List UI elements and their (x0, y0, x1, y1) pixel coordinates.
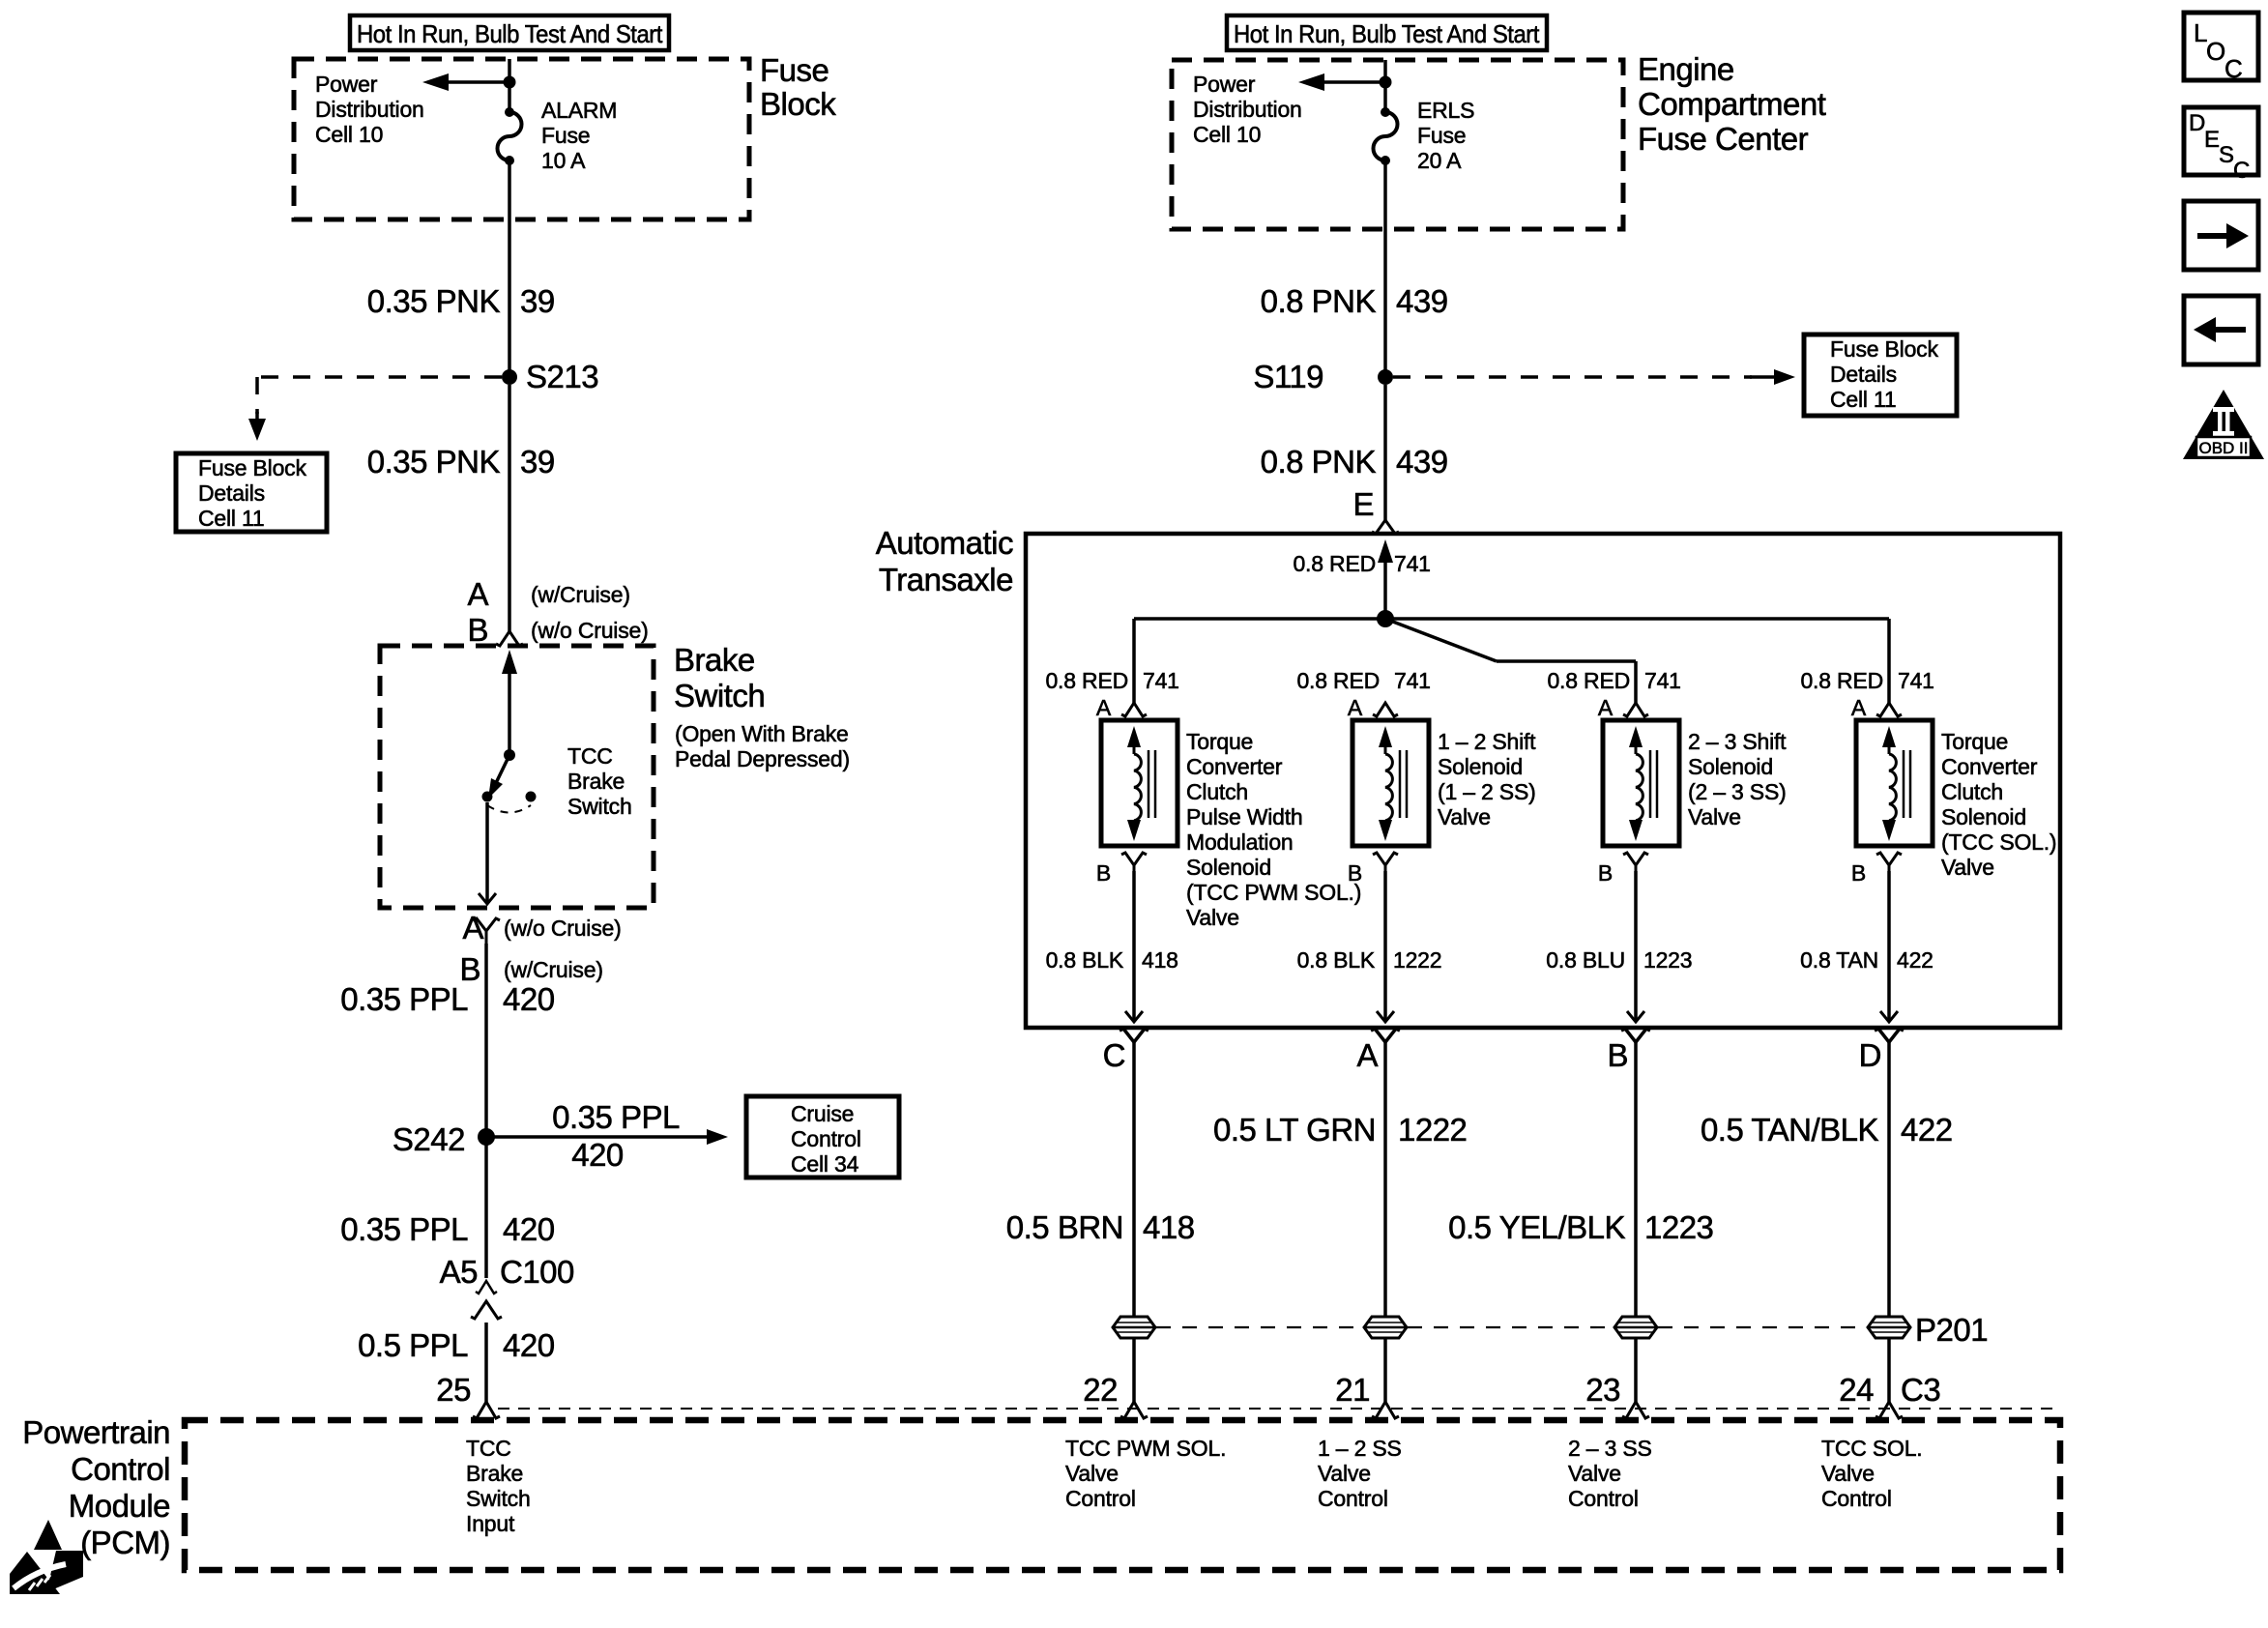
svg-text:B: B (1348, 860, 1362, 886)
ESD sensitivity symbol (34, 1520, 62, 1550)
svg-text:741: 741 (1898, 668, 1934, 693)
svg-text:420: 420 (503, 1211, 555, 1247)
svg-text:23: 23 (1585, 1372, 1620, 1408)
svg-text:(w/Cruise): (w/Cruise) (504, 957, 603, 982)
switch wire with up arrow (502, 650, 517, 674)
svg-text:C100: C100 (500, 1254, 574, 1290)
svg-text:Switch: Switch (674, 678, 765, 713)
svg-text:0.35 PNK: 0.35 PNK (367, 283, 501, 319)
svg-text:B: B (1607, 1037, 1628, 1073)
svg-text:S213: S213 (526, 359, 598, 394)
svg-text:422: 422 (1897, 947, 1934, 973)
svg-text:1223: 1223 (1643, 947, 1692, 973)
wire solenoid to box bottom (2-3 shift solenoid) (1634, 871, 1638, 1022)
wire diagonal branch to solenoid 3 (1385, 619, 1497, 661)
wire fuse to S213 (508, 160, 511, 371)
svg-text:C: C (2233, 158, 2250, 184)
svg-text:Cell 10: Cell 10 (1193, 122, 1261, 147)
svg-text:Cell 11: Cell 11 (198, 506, 265, 531)
icon box LOC (2184, 13, 2258, 80)
svg-text:Fuse Block: Fuse Block (198, 455, 306, 480)
junction dot power distribution (504, 76, 516, 89)
svg-text:Input: Input (466, 1511, 515, 1536)
svg-text:1222: 1222 (1393, 947, 1441, 973)
wire solenoid to box bottom (TCC solenoid) (1887, 871, 1891, 1022)
svg-text:S119: S119 (1253, 359, 1323, 394)
svg-text:B: B (1598, 860, 1613, 886)
solenoid coil with arrows (TCC PWM solenoid) (1127, 726, 1141, 747)
svg-text:Converter: Converter (1186, 754, 1283, 779)
svg-text:741: 741 (1394, 551, 1431, 576)
solenoid box (2-3 shift solenoid) (1603, 720, 1679, 846)
wire branch right to solenoid 4 (1385, 617, 1889, 621)
svg-text:741: 741 (1394, 668, 1431, 693)
wire from fuse block top (508, 59, 511, 112)
svg-text:Valve: Valve (1568, 1461, 1621, 1486)
thin dashed harness line above PCM (498, 1408, 2057, 1410)
arrow to details box right (1750, 375, 1777, 379)
wire solenoid to box bottom (1-2 shift solenoid) (1383, 871, 1387, 1022)
solenoid box (TCC solenoid) (1856, 720, 1933, 846)
svg-text:(w/o Cruise): (w/o Cruise) (531, 618, 649, 643)
svg-text:0.8 RED: 0.8 RED (1045, 668, 1128, 693)
svg-text:1 – 2 SS: 1 – 2 SS (1318, 1436, 1402, 1461)
svg-text:Switch: Switch (567, 794, 632, 819)
svg-text:Valve: Valve (1065, 1461, 1119, 1486)
label box: Hot In Run, Bulb Test And Start (right) (1227, 15, 1547, 50)
svg-text:A: A (1851, 695, 1867, 720)
wire branch left to solenoid 1 (1134, 617, 1385, 621)
svg-text:0.8 BLU: 0.8 BLU (1546, 947, 1625, 973)
svg-text:(TCC PWM SOL.): (TCC PWM SOL.) (1186, 880, 1361, 905)
svg-text:0.8 RED: 0.8 RED (1547, 668, 1630, 693)
svg-text:0.5 LT GRN: 0.5 LT GRN (1213, 1112, 1376, 1148)
transaxle bottom connector forks C A B D (1119, 1029, 1149, 1042)
connector fork pin B (2-3 shift solenoid) (1623, 853, 1648, 865)
svg-text:Brake: Brake (466, 1461, 523, 1486)
arrow down to details box (255, 412, 259, 423)
svg-text:2 – 3 SS: 2 – 3 SS (1568, 1436, 1652, 1461)
svg-text:0.5 BRN: 0.5 BRN (1006, 1209, 1123, 1245)
svg-text:E: E (1352, 486, 1374, 522)
svg-text:Brake: Brake (674, 642, 755, 678)
solenoid core bars (TCC PWM solenoid) (1148, 750, 1150, 818)
svg-text:Valve: Valve (1941, 855, 1994, 880)
automatic transaxle box (1026, 534, 2060, 1028)
svg-text:39: 39 (520, 283, 555, 319)
svg-text:Control: Control (1821, 1486, 1892, 1511)
splice S119 (1378, 369, 1393, 385)
svg-text:P201: P201 (1915, 1312, 1988, 1348)
svg-text:Converter: Converter (1941, 754, 2038, 779)
icon box right arrow (2184, 201, 2258, 270)
svg-text:Compartment: Compartment (1638, 86, 1826, 122)
connector fork pin B (TCC solenoid) (1876, 853, 1902, 865)
wire S213 to brake switch (508, 385, 511, 631)
solenoid box (TCC PWM solenoid) (1101, 720, 1178, 846)
svg-text:Control: Control (1568, 1486, 1639, 1511)
svg-text:Automatic: Automatic (876, 525, 1013, 561)
svg-text:D: D (1859, 1037, 1881, 1073)
svg-text:741: 741 (1644, 668, 1681, 693)
solenoid coil with arrows (TCC solenoid) (1882, 726, 1896, 747)
svg-text:Fuse: Fuse (541, 123, 590, 148)
svg-text:Control: Control (791, 1126, 861, 1151)
svg-text:Pedal Depressed): Pedal Depressed) (675, 746, 850, 771)
svg-text:0.35 PNK: 0.35 PNK (367, 444, 501, 480)
svg-text:Details: Details (198, 480, 265, 506)
svg-text:0.35 PPL: 0.35 PPL (340, 981, 468, 1017)
svg-text:A: A (1096, 695, 1112, 720)
svg-text:A: A (467, 576, 488, 612)
svg-text:Power: Power (315, 72, 378, 97)
svg-text:O: O (2206, 37, 2225, 66)
svg-text:439: 439 (1396, 283, 1448, 319)
connector fork pin B (1-2 shift solenoid) (1373, 853, 1398, 865)
solenoid core bars (TCC solenoid) (1903, 750, 1905, 818)
fuse block details box (left) (176, 453, 327, 532)
fuse block details box (right) (1804, 334, 1957, 416)
svg-text:420: 420 (503, 1327, 555, 1363)
svg-text:S242: S242 (393, 1121, 465, 1157)
junction dot power distribution (right) (1380, 76, 1392, 89)
svg-text:Solenoid: Solenoid (1186, 855, 1271, 880)
svg-text:39: 39 (520, 444, 555, 480)
switch blade with arrowhead (496, 755, 509, 783)
svg-text:0.8 RED: 0.8 RED (1293, 551, 1376, 576)
arrow to Power Distribution (right) (1323, 80, 1385, 84)
connector fork pin B (TCC PWM solenoid) (1121, 853, 1147, 865)
svg-text:Control: Control (1065, 1486, 1136, 1511)
svg-text:Brake: Brake (567, 769, 625, 794)
svg-text:Power: Power (1193, 72, 1256, 97)
wire from box top (1383, 60, 1387, 112)
svg-text:Cruise: Cruise (791, 1101, 854, 1126)
svg-text:Fuse Block: Fuse Block (1830, 336, 1938, 362)
svg-text:Clutch: Clutch (1186, 779, 1248, 804)
svg-text:Powertrain: Powertrain (22, 1414, 170, 1450)
svg-text:S: S (2219, 142, 2234, 168)
svg-text:Hot In Run, Bulb Test And Star: Hot In Run, Bulb Test And Start (357, 19, 663, 48)
svg-text:Cell 10: Cell 10 (315, 122, 383, 147)
svg-text:Valve: Valve (1186, 905, 1239, 930)
solenoid core bars (1-2 shift solenoid) (1399, 750, 1402, 818)
connector caret pin A (2-3 shift solenoid) (1623, 703, 1648, 716)
switch contact dot left (482, 792, 493, 802)
svg-text:418: 418 (1143, 1209, 1195, 1245)
icon box left arrow (2184, 296, 2258, 364)
connector caret at brake switch top (496, 631, 523, 646)
svg-text:(TCC SOL.): (TCC SOL.) (1941, 829, 2056, 855)
svg-text:0.8 BLK: 0.8 BLK (1297, 947, 1376, 973)
svg-text:(w/o Cruise): (w/o Cruise) (504, 916, 622, 941)
svg-text:(1 – 2 SS): (1 – 2 SS) (1438, 779, 1536, 804)
svg-text:Fuse Center: Fuse Center (1638, 121, 1809, 157)
svg-text:1223: 1223 (1644, 1209, 1713, 1245)
svg-text:TCC SOL.: TCC SOL. (1821, 1436, 1922, 1461)
switch contact dot right (526, 792, 537, 802)
wire to S242 (484, 944, 488, 1278)
svg-text:A: A (1598, 695, 1614, 720)
svg-text:A: A (1356, 1037, 1378, 1073)
svg-text:C: C (1103, 1037, 1125, 1073)
svg-text:420: 420 (571, 1137, 624, 1173)
svg-text:1 – 2 Shift: 1 – 2 Shift (1438, 729, 1536, 754)
dashed arc between contacts (487, 805, 531, 813)
svg-text:Control: Control (1318, 1486, 1388, 1511)
svg-text:(w/Cruise): (w/Cruise) (531, 582, 630, 607)
wire solenoid to box bottom (TCC PWM solenoid) (1132, 871, 1136, 1022)
svg-text:C: C (2224, 54, 2243, 83)
PCM pin carets 22 21 23 24 (1120, 1402, 1148, 1418)
svg-text:Valve: Valve (1821, 1461, 1875, 1486)
svg-text:Hot In Run, Bulb Test And Star: Hot In Run, Bulb Test And Start (1234, 19, 1540, 48)
svg-text:Valve: Valve (1438, 804, 1491, 829)
svg-text:A: A (462, 910, 483, 945)
splice S242 (478, 1128, 495, 1146)
solenoid box (1-2 shift solenoid) (1352, 720, 1429, 846)
svg-text:B: B (467, 612, 488, 648)
arrow to Power Distribution (447, 80, 509, 84)
svg-text:22: 22 (1083, 1372, 1118, 1408)
svg-text:B: B (1096, 860, 1111, 886)
svg-text:Module: Module (69, 1488, 170, 1524)
svg-text:C3: C3 (1901, 1372, 1940, 1408)
svg-text:Cell 11: Cell 11 (1830, 387, 1897, 412)
junction dot in transaxle (1377, 610, 1394, 627)
svg-text:2 – 3 Shift: 2 – 3 Shift (1688, 729, 1787, 754)
solenoid coil with arrows (2-3 shift solenoid) (1629, 726, 1643, 747)
svg-text:A: A (1348, 695, 1363, 720)
dashed line between P201 grommets (1156, 1326, 1363, 1328)
svg-text:(2 – 3 SS): (2 – 3 SS) (1688, 779, 1787, 804)
svg-text:Switch: Switch (466, 1486, 531, 1511)
svg-text:Fuse: Fuse (1417, 123, 1466, 148)
svg-text:25: 25 (436, 1372, 471, 1408)
svg-text:Clutch: Clutch (1941, 779, 2003, 804)
engine compartment fuse center (dashed box) (1172, 60, 1623, 229)
svg-text:Control: Control (71, 1451, 170, 1487)
svg-text:0.5 TAN/BLK: 0.5 TAN/BLK (1701, 1112, 1879, 1148)
wires P201 to PCM (1132, 1337, 1136, 1402)
PCM pin caret (25) (473, 1402, 500, 1418)
svg-text:Transaxle: Transaxle (879, 562, 1013, 597)
fuse ALARM 10A symbol (505, 107, 514, 117)
svg-text:0.8 PNK: 0.8 PNK (1261, 444, 1377, 480)
connector caret pin A (1-2 shift solenoid) (1373, 703, 1398, 716)
svg-text:418: 418 (1142, 947, 1178, 973)
svg-text:TCC PWM SOL.: TCC PWM SOL. (1065, 1436, 1226, 1461)
svg-text:Modulation: Modulation (1186, 829, 1294, 855)
fuse block (dashed box) (294, 59, 749, 219)
svg-text:0.8 RED: 0.8 RED (1800, 668, 1883, 693)
svg-text:0.8 TAN: 0.8 TAN (1800, 947, 1878, 973)
svg-text:E: E (2204, 127, 2220, 153)
dashed branch wire to fuse block details (257, 375, 502, 379)
wire fuse to S119 (1383, 160, 1387, 371)
solenoid coil with arrows (1-2 shift solenoid) (1379, 726, 1392, 747)
svg-text:Valve: Valve (1318, 1461, 1371, 1486)
wire with up arrow inside transaxle (1378, 539, 1393, 563)
svg-text:Pulse Width: Pulse Width (1186, 804, 1303, 829)
svg-text:Solenoid: Solenoid (1438, 754, 1523, 779)
svg-text:Solenoid: Solenoid (1941, 804, 2026, 829)
switch pivot dot (504, 749, 515, 761)
cruise control box (746, 1096, 899, 1177)
svg-text:Cell 34: Cell 34 (791, 1151, 859, 1177)
svg-text:0.8 BLK: 0.8 BLK (1046, 947, 1124, 973)
svg-text:0.35 PPL: 0.35 PPL (552, 1099, 680, 1135)
svg-text:Fuse: Fuse (760, 52, 829, 88)
svg-text:439: 439 (1396, 444, 1448, 480)
svg-text:0.35 PPL: 0.35 PPL (340, 1211, 468, 1247)
svg-text:420: 420 (503, 981, 555, 1017)
svg-text:0.8 PNK: 0.8 PNK (1261, 283, 1377, 319)
icon OBD II triangle (2183, 390, 2264, 459)
svg-text:Block: Block (760, 86, 836, 122)
fuse ERLS 20A symbol (1381, 107, 1390, 117)
svg-text:422: 422 (1901, 1112, 1953, 1148)
dashed branch to fuse block details (right) (1393, 375, 1752, 379)
svg-text:TCC: TCC (567, 743, 613, 769)
svg-text:Solenoid: Solenoid (1688, 754, 1773, 779)
svg-text:24: 24 (1839, 1372, 1874, 1408)
label box: Hot In Run, Bulb Test And Start (left) (350, 15, 669, 50)
icon box DESC (2184, 107, 2258, 175)
svg-text:D: D (2189, 110, 2205, 136)
svg-text:0.5 YEL/BLK: 0.5 YEL/BLK (1448, 1209, 1625, 1245)
brake switch (dashed box) (380, 646, 654, 908)
svg-text:Engine: Engine (1638, 51, 1734, 87)
svg-text:Distribution: Distribution (1193, 97, 1302, 122)
splice S213 (502, 369, 517, 385)
arrow wire to cruise control (486, 1135, 712, 1139)
svg-text:741: 741 (1143, 668, 1179, 693)
svg-text:10 A: 10 A (541, 148, 586, 173)
svg-text:Valve: Valve (1688, 804, 1741, 829)
wire C100 to PCM (484, 1323, 488, 1402)
connector caret pin A (TCC solenoid) (1876, 703, 1902, 716)
svg-text:A5: A5 (440, 1254, 478, 1290)
svg-text:(PCM): (PCM) (80, 1525, 170, 1560)
wires transaxle to P201 (1132, 1050, 1136, 1318)
grommet P201 pass-throughs (1113, 1317, 1155, 1338)
svg-text:ALARM: ALARM (541, 98, 617, 123)
svg-text:OBD II: OBD II (2198, 439, 2248, 457)
connector caret pin A (TCC PWM solenoid) (1121, 703, 1147, 716)
svg-text:(Open With Brake: (Open With Brake (675, 721, 849, 746)
connector caret at transaxle top (1372, 520, 1399, 534)
wire from contact down with exit arrow (485, 802, 489, 902)
svg-text:Torque: Torque (1941, 729, 2008, 754)
wire S119 to transaxle (1383, 385, 1387, 522)
solenoid core bars (2-3 shift solenoid) (1649, 750, 1652, 818)
svg-text:0.8 RED: 0.8 RED (1296, 668, 1380, 693)
svg-text:Details: Details (1830, 362, 1897, 387)
svg-text:20 A: 20 A (1417, 148, 1462, 173)
powertrain control module PCM (dashed box) (185, 1420, 2060, 1570)
svg-text:1222: 1222 (1398, 1112, 1467, 1148)
svg-text:ERLS: ERLS (1417, 98, 1474, 123)
svg-text:0.5 PPL: 0.5 PPL (358, 1327, 468, 1363)
svg-text:B: B (1851, 860, 1866, 886)
svg-text:TCC: TCC (466, 1436, 511, 1461)
svg-text:Torque: Torque (1186, 729, 1253, 754)
svg-text:21: 21 (1335, 1372, 1370, 1408)
svg-text:Distribution: Distribution (315, 97, 424, 122)
